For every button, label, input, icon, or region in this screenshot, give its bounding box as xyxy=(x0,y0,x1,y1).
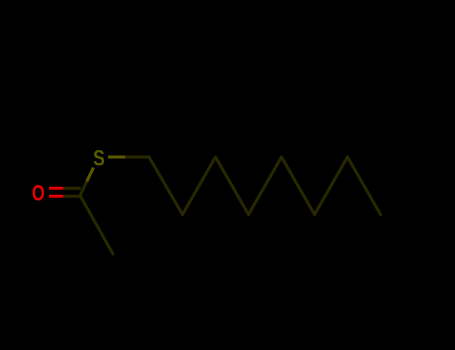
bond C-S (S half, bright) xyxy=(87,168,94,182)
double bond C=O upper line (O half, red) xyxy=(49,187,65,190)
bond S-C1 (S half, bright) xyxy=(108,156,127,159)
bond C-CH3 (methyl, olive) xyxy=(80,196,113,255)
chain bond C3-C4 xyxy=(216,157,249,215)
double bond C=O upper line (C half, olive) xyxy=(65,187,80,190)
double bond C=O lower line (C half, olive) xyxy=(65,195,81,198)
svg-text:O: O xyxy=(32,181,45,206)
chain bond C2-C3 xyxy=(183,157,216,215)
bond C-S (C half, olive) xyxy=(80,181,87,195)
chain bond C4-C5 xyxy=(249,157,282,215)
chain bond C1-C2 xyxy=(149,157,183,215)
svg-text:S: S xyxy=(93,147,105,171)
bond S-C1 (C half, olive) xyxy=(127,156,150,159)
double bond C=O lower line (O half, red) xyxy=(49,195,65,198)
chain bond C6-C7 xyxy=(315,157,348,215)
chain bond C5-C6 xyxy=(282,157,315,215)
chain bond C7-C8 xyxy=(348,157,381,215)
